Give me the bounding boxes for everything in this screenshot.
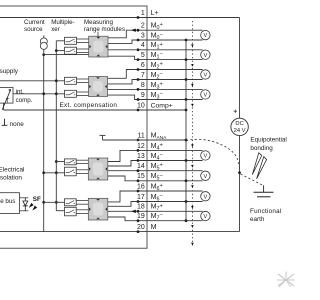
svg-text:none: none xyxy=(10,121,25,128)
svg-text:4: 4 xyxy=(141,42,145,49)
svg-text:17: 17 xyxy=(137,194,145,201)
svg-text:earth: earth xyxy=(250,216,265,223)
svg-text:L+: L+ xyxy=(151,10,159,17)
svg-text:range modules: range modules xyxy=(84,26,125,33)
svg-text:V: V xyxy=(204,154,208,160)
svg-text:DC: DC xyxy=(235,121,243,127)
svg-text:20: 20 xyxy=(137,224,145,231)
svg-text:3: 3 xyxy=(141,32,145,39)
svg-text:source: source xyxy=(24,26,43,33)
svg-text:SF: SF xyxy=(33,196,41,203)
svg-text:comp.: comp. xyxy=(16,97,33,104)
svg-text:11: 11 xyxy=(138,132,145,139)
svg-text:2: 2 xyxy=(141,23,145,30)
svg-text:6: 6 xyxy=(141,62,145,69)
svg-text:Measuring: Measuring xyxy=(84,19,113,26)
svg-text:V: V xyxy=(204,73,208,79)
svg-text:10: 10 xyxy=(137,102,145,109)
svg-text:14: 14 xyxy=(137,163,145,170)
svg-text:T: T xyxy=(6,98,10,104)
svg-text:1: 1 xyxy=(141,10,145,17)
svg-text:15: 15 xyxy=(137,173,145,180)
svg-text:8: 8 xyxy=(141,82,145,89)
svg-text:19: 19 xyxy=(137,213,145,220)
svg-text:5: 5 xyxy=(141,52,145,59)
svg-text:Current: Current xyxy=(24,19,45,26)
svg-text:V: V xyxy=(204,214,208,220)
svg-text:V: V xyxy=(204,174,208,180)
svg-text:Electrical: Electrical xyxy=(0,166,24,173)
svg-text:7: 7 xyxy=(141,72,145,79)
svg-text:13: 13 xyxy=(137,153,145,160)
svg-text:Comp+: Comp+ xyxy=(151,102,173,109)
svg-text:24 V: 24 V xyxy=(234,128,246,134)
svg-text:Functional: Functional xyxy=(250,208,282,215)
svg-text:18: 18 xyxy=(137,204,145,211)
svg-text:e bus: e bus xyxy=(0,198,15,205)
svg-text:16: 16 xyxy=(137,183,145,190)
svg-text:V: V xyxy=(204,53,208,59)
svg-text:Equipotential: Equipotential xyxy=(250,137,286,144)
svg-text:V: V xyxy=(204,33,208,39)
svg-text:Multiple-: Multiple- xyxy=(51,19,74,26)
svg-text:bonding: bonding xyxy=(250,145,273,152)
svg-text:V: V xyxy=(204,93,208,99)
svg-text:9: 9 xyxy=(141,92,145,99)
svg-text:Ext. compensation: Ext. compensation xyxy=(60,102,118,109)
svg-text:M: M xyxy=(151,223,157,231)
svg-text:xer: xer xyxy=(51,26,60,33)
svg-text:12: 12 xyxy=(137,143,145,150)
svg-text:int.: int. xyxy=(16,88,25,95)
svg-text:V: V xyxy=(204,194,208,200)
svg-text:isolation: isolation xyxy=(0,175,22,182)
svg-text:supply: supply xyxy=(0,68,19,75)
